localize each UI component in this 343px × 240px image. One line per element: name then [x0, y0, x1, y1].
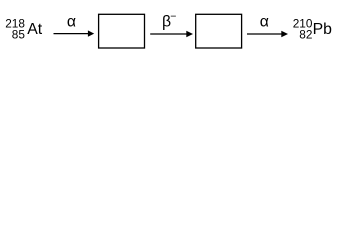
svg-text:α: α	[67, 14, 76, 31]
alpha decay label 1	[67, 14, 76, 31]
nuclide At-218: element symbol At	[27, 21, 43, 38]
svg-text:85: 85	[12, 28, 26, 42]
box 2 (unknown intermediate nuclide Po-214)	[196, 14, 242, 48]
svg-text:Pb: Pb	[313, 21, 333, 38]
nuclide At-218: mass number 218	[5, 17, 25, 31]
nuclide Pb-210: element symbol Pb	[313, 21, 333, 38]
alpha decay label 2	[260, 14, 269, 31]
svg-text:82: 82	[299, 28, 312, 42]
beta-minus decay label	[162, 11, 176, 31]
svg-text:−: −	[170, 11, 176, 23]
nuclide At-218: atomic number 85	[12, 28, 26, 42]
arrow 1 (alpha decay, At-218 to box 1)	[54, 30, 95, 36]
svg-text:α: α	[260, 14, 269, 31]
arrow 2 (beta decay, box 1 to box 2)	[150, 31, 193, 37]
nuclide Pb-210: atomic number 82	[299, 28, 312, 42]
box 1 (unknown intermediate nuclide Bi-214)	[99, 14, 145, 48]
arrow 3 (alpha decay, box 2 to Pb-210)	[247, 31, 288, 37]
svg-text:At: At	[27, 21, 43, 38]
nuclide Pb-210: mass number 210	[293, 17, 313, 31]
